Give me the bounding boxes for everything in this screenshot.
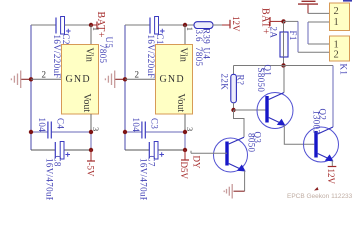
connector K1 upper half — [330, 3, 350, 31]
node S2 gnd — [123, 77, 127, 81]
svg-text:1: 1 — [334, 17, 339, 28]
svg-text:2: 2 — [334, 50, 339, 61]
svg-text:104: 104 — [37, 118, 47, 133]
transistor Q3 8050 — [214, 132, 263, 173]
resistor R39 — [194, 22, 213, 45]
wire top-left S1 — [31, 24, 56, 26]
svg-text:13003: 13003 — [312, 110, 322, 134]
wire bottom rail S1 — [31, 149, 55, 151]
power port BAT+ (right) — [260, 8, 284, 35]
svg-text:Vin: Vin — [84, 48, 95, 62]
wire pin1 U5 — [90, 25, 92, 45]
node 12V/R39 — [183, 23, 187, 27]
ground (under Q3) — [224, 184, 244, 199]
svg-text:12V: 12V — [231, 16, 241, 32]
wire gnd to K1 pin A2 — [308, 12, 330, 14]
svg-text:2: 2 — [334, 6, 339, 17]
node BAT+ S1 — [89, 23, 93, 27]
svg-text:D5V: D5V — [179, 162, 189, 180]
svg-text:12V: 12V — [326, 169, 336, 185]
wire DY to Q3 base — [191, 152, 227, 154]
transistor Q2 13003 — [304, 109, 339, 163]
svg-text:GND: GND — [160, 74, 185, 85]
wire BAT+ to K1 pin B2 — [284, 20, 299, 22]
wire Q2 emitter to 12V — [331, 161, 333, 167]
power port BAT+ — [91, 12, 106, 39]
svg-text:16V/470uF: 16V/470uF — [45, 158, 55, 200]
wire pin1 U4 — [184, 25, 186, 45]
cut-off designator above connector — [343, 0, 352, 2]
svg-text:16V/470uF: 16V/470uF — [139, 158, 149, 200]
svg-text:104: 104 — [131, 118, 141, 133]
svg-text:Vin: Vin — [178, 48, 189, 62]
wire C3 row — [125, 131, 185, 133]
wire Q3 emitter to ground — [244, 171, 246, 192]
node BAT+ right — [281, 19, 285, 23]
wire pin3 U5 — [90, 114, 92, 132]
wire C4 row — [31, 131, 91, 133]
node fuse bottom — [281, 63, 285, 67]
node C3 left — [123, 130, 127, 134]
svg-text:1: 1 — [91, 27, 101, 31]
wire R? node to Q3 collector — [234, 110, 245, 137]
power port -5V — [85, 150, 95, 177]
svg-text:3.6: 3.6 — [194, 30, 204, 42]
svg-text:C4: C4 — [55, 118, 65, 129]
svg-text:F1: F1 — [288, 31, 298, 41]
svg-text:DY: DY — [192, 156, 202, 169]
fuse F1 — [269, 21, 299, 65]
wire left rail S1 — [30, 25, 32, 150]
power port 12V (bottom) — [326, 167, 336, 185]
capacitor C8 — [45, 142, 71, 203]
node Vout S2 — [183, 130, 187, 134]
svg-text:8050: 8050 — [247, 133, 257, 153]
svg-text:Vout: Vout — [175, 94, 186, 113]
svg-text:16V/220uF: 16V/220uF — [52, 35, 62, 79]
wire R? to Q1 base — [234, 109, 267, 111]
svg-text:7805: 7805 — [194, 47, 204, 67]
svg-text:BAT+: BAT+ — [95, 12, 106, 39]
capacitor C2 — [52, 17, 71, 79]
node R? bottom — [231, 108, 235, 112]
node -5V — [89, 148, 93, 152]
svg-text:22K: 22K — [220, 74, 230, 91]
svg-text:K1: K1 — [339, 64, 349, 76]
watermark logo — [314, 187, 319, 191]
node S1 gnd — [29, 77, 33, 81]
op-amp U5 box 7805 — [62, 37, 115, 115]
svg-text:C3: C3 — [149, 118, 159, 129]
svg-text:7805: 7805 — [98, 44, 108, 64]
wire top-right S2 — [159, 24, 195, 26]
capacitor C3 — [131, 118, 159, 139]
ground (power, top right) — [298, 1, 318, 13]
transistor Q1 S8050 — [256, 65, 293, 129]
resistor R? 22K — [220, 66, 246, 111]
capacitor C7 — [139, 142, 165, 203]
svg-text:1: 1 — [185, 27, 195, 31]
node Vout S1 — [89, 130, 93, 134]
svg-text:Vout: Vout — [81, 94, 92, 113]
node C4 left — [29, 130, 33, 134]
svg-text:GND: GND — [66, 74, 91, 85]
svg-text:2: 2 — [135, 70, 140, 80]
svg-text:S8050: S8050 — [256, 68, 266, 93]
wire pin3 U4 — [184, 114, 186, 132]
svg-text:R?: R? — [236, 75, 246, 86]
wire bottom rail S2 — [125, 149, 149, 151]
svg-text:16V/220uF: 16V/220uF — [146, 35, 156, 79]
wire pin2 U5 — [31, 78, 61, 80]
wire top-left S2 — [125, 24, 150, 26]
wire top-right S1 — [65, 24, 92, 26]
wire Q1 emitter to Q2 base — [284, 125, 314, 144]
wire R39 to 12V — [213, 24, 223, 26]
wire to Q2 collector (K1 loop) — [332, 66, 334, 128]
svg-text:-5V: -5V — [85, 163, 95, 177]
wire left rail S2 — [124, 25, 126, 150]
ground (S2 left) — [105, 71, 125, 89]
power port 12V — [222, 16, 241, 32]
wire main switched rail — [234, 65, 334, 67]
connector K1 lower half — [330, 36, 350, 61]
ground (S1 left) — [11, 71, 31, 89]
svg-text:2A: 2A — [269, 27, 279, 39]
capacitor C4 — [37, 118, 65, 139]
wire pin2 U4 — [125, 78, 155, 80]
svg-text:EPCB Geekon 112233: EPCB Geekon 112233 — [287, 193, 353, 200]
node D5V — [183, 148, 187, 152]
power port D5V — [179, 150, 189, 179]
op-amp U4 box 7805 — [156, 45, 212, 115]
svg-text:2: 2 — [42, 70, 47, 80]
wire K1 pin A1 to B1 — [308, 22, 330, 44]
capacitor C1 — [146, 17, 165, 79]
